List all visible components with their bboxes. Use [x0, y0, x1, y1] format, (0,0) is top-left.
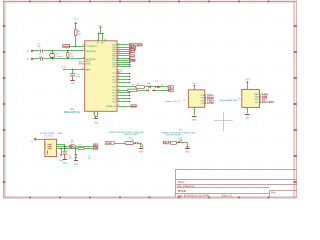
- svg-text:PC5: PC5: [112, 101, 116, 103]
- svg-text:D3: D3: [155, 81, 157, 83]
- svg-text:5: 5: [98, 113, 99, 115]
- svg-text:VCC: VCC: [73, 19, 78, 21]
- svg-text:IC1: IC1: [70, 109, 74, 111]
- svg-text:GND: GND: [74, 164, 79, 166]
- svg-text:22p: 22p: [39, 56, 42, 58]
- svg-text:20: 20: [82, 68, 84, 70]
- svg-text:PD4: PD4: [112, 98, 116, 100]
- svg-text:AIN: AIN: [130, 55, 134, 58]
- svg-text:GND: GND: [63, 163, 68, 165]
- svg-text:AREF: AREF: [86, 69, 92, 72]
- svg-text:PC1: PC1: [112, 73, 116, 75]
- svg-text:1k: 1k: [137, 83, 139, 85]
- svg-text:GND: GND: [94, 148, 99, 150]
- svg-text:29: 29: [82, 44, 84, 46]
- svg-text:GND: GND: [192, 119, 197, 121]
- svg-text:Connects_RX_TX: Connects_RX_TX: [165, 100, 181, 103]
- svg-text:M7: M7: [71, 142, 74, 144]
- svg-text:330: 330: [131, 139, 134, 141]
- svg-text:4 VCC+BAT: 4 VCC+BAT: [260, 100, 275, 104]
- svg-text:3: 3: [45, 148, 46, 150]
- svg-text:10k: 10k: [78, 33, 81, 35]
- svg-text:J1: J1: [31, 141, 33, 143]
- svg-text:TITLE:: TITLE:: [178, 189, 187, 193]
- svg-text:6: 6: [192, 109, 193, 111]
- svg-text:LED: LED: [147, 83, 151, 85]
- svg-text:GND: GND: [94, 122, 99, 124]
- svg-text:100n: 100n: [76, 76, 80, 78]
- svg-text:PD2: PD2: [112, 93, 116, 95]
- svg-text:VCC: VCC: [245, 79, 250, 81]
- svg-text:GND: GND: [59, 160, 64, 162]
- svg-text:PD2: PD2: [164, 142, 168, 144]
- svg-text:AGND: AGND: [86, 63, 92, 66]
- svg-text:VIN: VIN: [94, 145, 98, 147]
- svg-text:1: 1: [45, 144, 46, 146]
- svg-text:22p: 22p: [37, 46, 40, 48]
- svg-text:PWM: PWM: [130, 60, 136, 62]
- svg-text:F1: F1: [79, 145, 81, 147]
- svg-text:Sheet: 1/1: Sheet: 1/1: [222, 194, 234, 197]
- svg-text:SWITCH STATUS: SWITCH STATUS: [166, 134, 182, 137]
- svg-text:GND: GND: [245, 117, 250, 119]
- svg-text:7: 7: [83, 49, 84, 51]
- svg-text:10u: 10u: [69, 158, 72, 160]
- svg-text:P1: P1: [26, 51, 28, 53]
- svg-text:1M: 1M: [70, 56, 73, 58]
- svg-text:GND: GND: [70, 83, 75, 85]
- svg-text:J2: J2: [183, 100, 185, 102]
- svg-text:R3: R3: [132, 85, 134, 87]
- svg-text:Sheet: /: Sheet: /: [178, 181, 187, 184]
- svg-text:SWITCH CREDIT: SWITCH CREDIT: [124, 134, 140, 136]
- svg-text:2: 2: [45, 146, 46, 148]
- svg-text:MEGA328P-AU: MEGA328P-AU: [64, 111, 80, 114]
- svg-text:RX: RX: [168, 90, 172, 92]
- svg-text:Date: 8/14/2016 10:22:14 PM: Date: 8/14/2016 10:22:14 PM: [178, 194, 209, 197]
- svg-text:3: 3: [93, 113, 94, 115]
- svg-text:GND: GND: [139, 152, 144, 154]
- svg-text:P2: P2: [26, 59, 28, 61]
- svg-text:PC0: PC0: [112, 66, 116, 68]
- svg-text:RemoteLAMP IFP B: RemoteLAMP IFP B: [220, 99, 239, 102]
- svg-text:10u: 10u: [88, 158, 91, 160]
- svg-text:8: 8: [83, 57, 84, 59]
- svg-text:PWM11: PWM11: [106, 143, 113, 145]
- svg-text:4 CTS0: 4 CTS0: [205, 101, 214, 105]
- svg-text:6: 6: [245, 109, 246, 111]
- svg-text:RESET: RESET: [63, 46, 70, 48]
- svg-text:PD1: PD1: [112, 87, 116, 89]
- svg-text:PC2: PC2: [112, 76, 116, 78]
- svg-text:PC6(/RESET): PC6(/RESET): [86, 46, 98, 48]
- svg-text:PD3: PD3: [112, 96, 116, 98]
- svg-text:MIDI: MIDI: [131, 106, 136, 108]
- svg-text:18: 18: [104, 39, 106, 41]
- svg-text:AGND: AGND: [79, 63, 85, 66]
- svg-text:VCC: VCC: [192, 83, 197, 85]
- svg-text:Rev:: Rev:: [271, 192, 276, 195]
- svg-text:GND: GND: [185, 152, 190, 154]
- svg-text:PC4: PC4: [112, 82, 116, 84]
- svg-text:4: 4: [97, 39, 98, 41]
- svg-text:LP KL: LP KL: [61, 67, 66, 69]
- svg-text:(DCJ0202): (DCJ0202): [44, 135, 54, 137]
- svg-text:B1: B1: [239, 98, 241, 100]
- svg-text:ADC7(: ADC7(: [106, 105, 112, 108]
- svg-text:Crystal: Crystal: [56, 55, 62, 58]
- svg-text:VIN1: VIN1: [58, 133, 63, 135]
- svg-text:PB6(XTAL1): PB6(XTAL1): [86, 50, 97, 53]
- svg-text:File: untitled.sch: File: untitled.sch: [178, 185, 196, 188]
